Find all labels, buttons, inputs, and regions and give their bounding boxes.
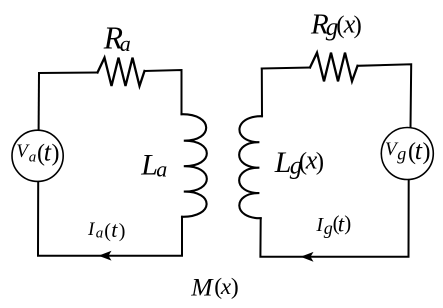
- resistor R_g: [310, 53, 358, 82]
- svg-text:a: a: [156, 157, 167, 182]
- wire right-loop top horizontal: [262, 68, 310, 69]
- svg-text:I: I: [87, 219, 96, 240]
- svg-text:(: (: [104, 220, 111, 242]
- svg-text:): ): [316, 148, 324, 175]
- wire resistor Ra to left-loop top-right corner: [145, 70, 182, 114]
- node circle of source V_g: [381, 128, 433, 180]
- arrow current I_a direction: [99, 251, 112, 261]
- svg-text:g: g: [324, 218, 333, 238]
- svg-text:): ): [354, 12, 362, 39]
- wire upper-left vertical: [38, 73, 40, 130]
- svg-text:a: a: [120, 31, 131, 56]
- resistor R_a: [98, 58, 145, 86]
- wire left-loop top horizontal: [39, 72, 98, 75]
- svg-text:t: t: [111, 217, 118, 242]
- svg-text:): ): [119, 220, 126, 242]
- inductor L_g: [239, 116, 262, 218]
- svg-text:): ): [231, 274, 239, 300]
- svg-text:): ): [52, 140, 60, 166]
- svg-text:M: M: [190, 273, 214, 302]
- svg-text:a: a: [29, 150, 37, 166]
- wire inductor Lg bottom + bottom wire + lower-right vertical: [260, 180, 408, 257]
- inductor L_a: [182, 114, 207, 217]
- arrow current I_g direction: [301, 252, 314, 262]
- wire resistor Rg to right-loop top-right corner: [358, 64, 412, 127]
- svg-text:g: g: [397, 144, 406, 164]
- wire upper-left vertical of right loop: [261, 69, 263, 117]
- svg-text:): ): [344, 211, 351, 235]
- node circle of source V_a: [12, 130, 63, 181]
- svg-text:): ): [423, 139, 431, 165]
- wire inductor La bottom + bottom wire + lower-left vertical: [38, 181, 182, 255]
- svg-text:a: a: [96, 225, 104, 241]
